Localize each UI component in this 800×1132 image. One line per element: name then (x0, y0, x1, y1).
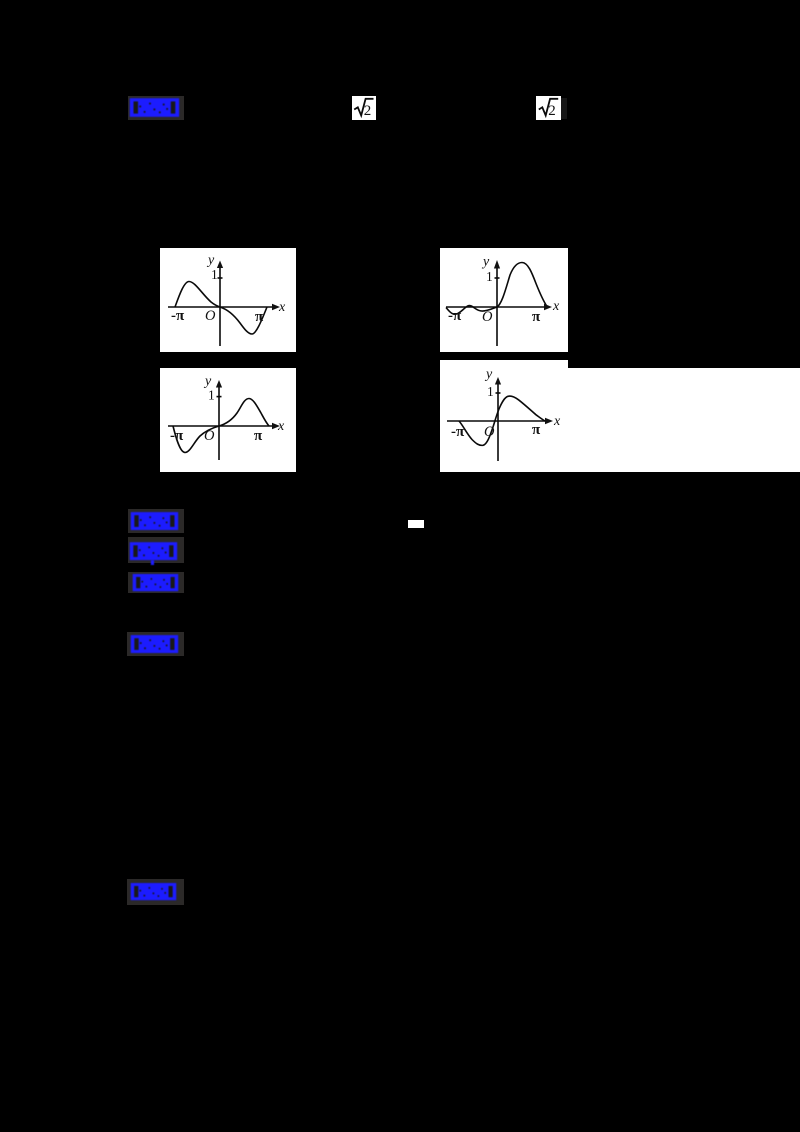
svg-text:O: O (482, 309, 493, 325)
svg-text:x: x (553, 414, 561, 429)
svg-text:π: π (532, 422, 541, 438)
svg-text:1: 1 (208, 388, 215, 403)
svg-text:-π: -π (170, 428, 184, 444)
svg-text:-π: -π (451, 424, 465, 440)
svg-text:2: 2 (548, 103, 556, 119)
svg-text:π: π (532, 309, 541, 325)
svg-text:2: 2 (364, 103, 372, 119)
svg-text:y: y (481, 255, 490, 270)
svg-text:x: x (552, 299, 560, 314)
svg-text:1: 1 (486, 269, 493, 284)
svg-text:-π: -π (171, 308, 185, 324)
svg-text:O: O (204, 428, 215, 444)
svg-text:O: O (205, 308, 216, 324)
svg-text:1: 1 (211, 267, 218, 282)
svg-text:π: π (254, 428, 263, 444)
svg-text:1: 1 (487, 384, 494, 399)
svg-text:y: y (484, 367, 493, 382)
svg-text:-π: -π (448, 308, 462, 324)
svg-text:x: x (278, 300, 286, 315)
svg-text:π: π (255, 309, 264, 325)
svg-text:O: O (484, 424, 495, 440)
svg-text:y: y (206, 253, 215, 268)
svg-text:x: x (277, 419, 285, 434)
